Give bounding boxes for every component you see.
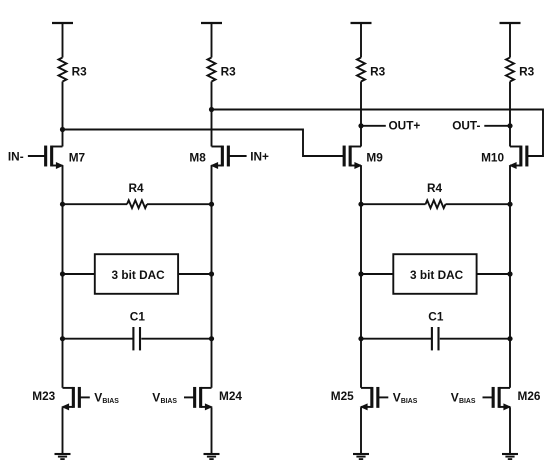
capacitor C1 <box>428 310 444 351</box>
junction dot DAC right node (left half) <box>209 271 214 276</box>
capacitor C1 <box>130 310 146 351</box>
svg-text:M25: M25 <box>331 389 354 403</box>
VDD supply rail 3 <box>351 22 372 24</box>
svg-text:IN+: IN+ <box>250 149 269 163</box>
transistor M10 (NMOS) <box>509 146 527 169</box>
label IN+ <box>250 149 269 163</box>
junction dot OUT+ node <box>358 123 363 128</box>
resistor R3 <box>506 58 535 82</box>
label M7 designator <box>69 151 86 165</box>
wire OUT- lead <box>484 125 510 127</box>
resistor R3 <box>59 58 88 82</box>
junction dot C1 right node (right half) <box>507 336 512 341</box>
label VBIAS (M25) <box>393 391 418 406</box>
svg-text:M24: M24 <box>219 389 242 403</box>
transistor M24 (NMOS) <box>195 387 213 410</box>
wire supply stub col4 <box>509 23 511 58</box>
wire DAC row left segment (right half) <box>361 273 393 275</box>
junction dot DAC left node (right half) <box>358 271 363 276</box>
svg-text:R3: R3 <box>519 65 535 79</box>
wire to ground col2 <box>211 407 213 454</box>
wire OUT+ lead <box>361 125 386 127</box>
wire R4 row right segment (right half) <box>446 203 511 205</box>
wire source to lower stage col2 <box>211 166 213 388</box>
svg-text:M10: M10 <box>481 151 504 165</box>
junction dot C1 right node (left half) <box>209 336 214 341</box>
VDD supply rail 4 <box>500 22 521 24</box>
wire source to lower stage col4 <box>509 166 511 388</box>
wire M24 gate lead <box>184 396 195 398</box>
wire to ground col3 <box>360 407 362 454</box>
label OUT+ <box>389 119 421 133</box>
wire R4 row left segment (left half) <box>63 203 128 205</box>
resistor R3 <box>208 58 237 82</box>
junction dot C1 left node (left half) <box>60 336 65 341</box>
VDD supply rail 1 <box>52 22 73 24</box>
wire C1 row left segment (left half) <box>63 338 133 340</box>
svg-text:OUT-: OUT- <box>452 119 480 133</box>
wire source to lower stage col1 <box>62 166 64 388</box>
svg-text:IN-: IN- <box>8 149 24 163</box>
svg-text:M26: M26 <box>518 389 541 403</box>
svg-text:C1: C1 <box>428 310 444 324</box>
3 bit DAC box (U1 left) <box>95 254 178 294</box>
transistor M26 (NMOS) <box>493 387 511 410</box>
wire R4 row left segment (right half) <box>361 203 426 205</box>
svg-text:R4: R4 <box>129 181 145 195</box>
label M10 designator <box>481 151 504 165</box>
wire M26 gate lead <box>483 396 494 398</box>
wire DAC row right segment (right half) <box>477 273 510 275</box>
wire node A: M8 drain to M10 gate <box>212 110 544 157</box>
svg-text:BIAS: BIAS <box>459 398 476 405</box>
svg-text:R4: R4 <box>427 181 443 195</box>
transistor M23 (NMOS) <box>61 387 79 410</box>
label M24 designator <box>219 389 242 403</box>
svg-text:V: V <box>451 391 459 405</box>
transistor M25 (NMOS) <box>360 387 378 410</box>
wire R4 row right segment (left half) <box>147 203 212 205</box>
label M9 designator <box>366 151 383 165</box>
junction dot R4 left node (left half) <box>60 202 65 207</box>
label M23 designator <box>32 389 55 403</box>
resistor R4 <box>127 181 147 208</box>
wire R3 to drain col4 <box>509 82 511 147</box>
svg-text:3 bit DAC: 3 bit DAC <box>410 268 464 282</box>
ground 2 <box>204 454 220 459</box>
svg-text:R3: R3 <box>370 65 386 79</box>
wire supply stub col2 <box>211 23 213 58</box>
transistor M7 (NMOS) <box>46 146 64 169</box>
wire to ground col1 <box>62 407 64 454</box>
junction dot R4 left node (right half) <box>358 202 363 207</box>
wire C1 row right segment (right half) <box>440 338 510 340</box>
wire R3 to drain col3 <box>360 82 362 147</box>
wire IN+ gate lead <box>227 155 247 157</box>
label IN- <box>8 149 24 163</box>
junction dot DAC right node (right half) <box>507 271 512 276</box>
resistor R4 <box>426 181 446 208</box>
wire supply stub col3 <box>360 23 362 58</box>
3 bit DAC box (U2 right) <box>393 254 476 294</box>
wire C1 row right segment (left half) <box>141 338 211 340</box>
svg-text:C1: C1 <box>130 310 146 324</box>
label VBIAS (M24) <box>152 391 177 406</box>
svg-text:M7: M7 <box>69 151 86 165</box>
junction dot R4 right node (left half) <box>209 202 214 207</box>
wire supply stub col1 <box>62 23 64 58</box>
label VBIAS (M23) <box>94 391 119 406</box>
svg-text:V: V <box>94 391 102 405</box>
svg-text:V: V <box>152 391 160 405</box>
junction dot wire B at M7 drain column <box>60 127 65 132</box>
junction dot R4 right node (right half) <box>507 202 512 207</box>
wire M23 gate lead <box>79 396 90 398</box>
svg-text:OUT+: OUT+ <box>389 119 421 133</box>
VDD supply rail 2 <box>201 22 222 24</box>
wire DAC row left segment (left half) <box>63 273 95 275</box>
wire DAC row right segment (left half) <box>178 273 211 275</box>
wire to ground col4 <box>509 407 511 454</box>
svg-text:3 bit DAC: 3 bit DAC <box>112 268 166 282</box>
label M25 designator <box>331 389 354 403</box>
svg-text:R3: R3 <box>221 65 237 79</box>
svg-text:R3: R3 <box>72 65 88 79</box>
wire source to lower stage col3 <box>360 166 362 388</box>
ground 3 <box>353 454 369 459</box>
transistor M9 (NMOS) <box>344 146 362 169</box>
resistor R3 <box>357 58 386 82</box>
svg-text:M23: M23 <box>32 389 55 403</box>
svg-text:M8: M8 <box>189 151 206 165</box>
junction dot DAC left node (left half) <box>60 271 65 276</box>
svg-text:V: V <box>393 391 401 405</box>
label OUT- <box>452 119 480 133</box>
wire node B: M7 drain to M9 gate <box>63 130 345 157</box>
wire C1 row left segment (right half) <box>361 338 431 340</box>
junction dot wire A at M8 drain column <box>209 107 214 112</box>
label M26 designator <box>518 389 541 403</box>
svg-text:BIAS: BIAS <box>102 398 119 405</box>
ground 1 <box>55 454 71 459</box>
wire R3 to drain col2 <box>211 82 213 147</box>
wire IN- gate lead <box>28 155 47 157</box>
wire R3 to drain col1 <box>62 82 64 147</box>
label M8 designator <box>189 151 206 165</box>
junction dot C1 left node (right half) <box>358 336 363 341</box>
svg-text:BIAS: BIAS <box>161 398 178 405</box>
label VBIAS (M26) <box>451 391 476 406</box>
transistor M8 (NMOS) <box>210 146 228 169</box>
svg-text:BIAS: BIAS <box>401 398 418 405</box>
wire M25 gate lead <box>378 396 389 398</box>
ground 4 <box>502 454 518 459</box>
junction dot OUT- node <box>507 123 512 128</box>
svg-text:M9: M9 <box>366 151 383 165</box>
